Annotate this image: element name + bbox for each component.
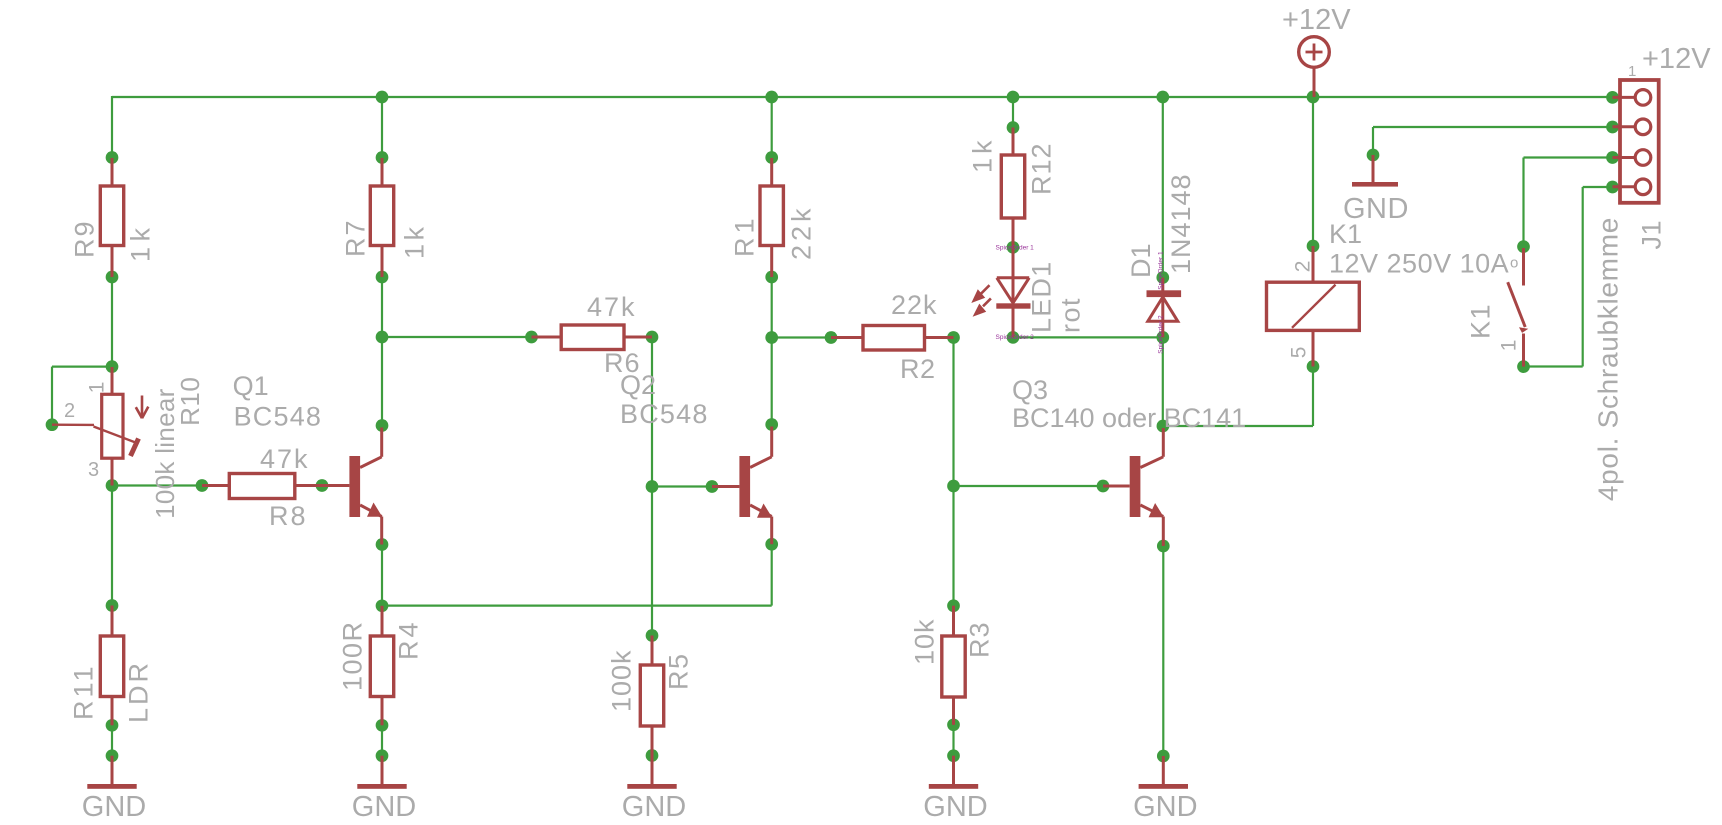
stub R10 pin3 bbox=[111, 458, 114, 486]
wire relay K1 pin5 to Q3 collector node bbox=[1163, 367, 1313, 427]
stub R5 top bbox=[651, 636, 654, 666]
junction rail R1 bbox=[765, 91, 778, 104]
wire D1 top bbox=[1162, 97, 1164, 278]
pin dot R6 left bbox=[525, 331, 538, 344]
stub relay pin2 bbox=[1312, 246, 1315, 282]
stub R2 left bbox=[831, 336, 863, 339]
svg-text:5: 5 bbox=[1287, 347, 1310, 359]
stub +12V supply bbox=[1313, 68, 1316, 98]
pin dot LED1 cathode bbox=[1007, 331, 1020, 344]
stub J1 pin2 bbox=[1613, 125, 1637, 128]
potentiometer R10 wiper bbox=[52, 425, 139, 456]
svg-text:GND: GND bbox=[622, 791, 686, 823]
pin dot switch bottom bbox=[1517, 360, 1530, 373]
stub R6 right bbox=[624, 336, 652, 339]
transistor Q1 bbox=[349, 428, 382, 545]
LED LED1 bbox=[971, 247, 1030, 337]
svg-text:Q1: Q1 bbox=[233, 371, 269, 401]
svg-text:1k: 1k bbox=[968, 136, 998, 173]
wire R1 bottom to Q2 collector bbox=[771, 277, 773, 425]
stub R9 bottom bbox=[111, 246, 114, 278]
pin dot R1 top bbox=[765, 151, 778, 164]
pin dot R9 top bbox=[106, 151, 119, 164]
stub R1 top bbox=[770, 158, 773, 186]
pin dot R9 bottom bbox=[106, 271, 119, 284]
wire R7 bottom to Q1 collector bbox=[381, 277, 383, 426]
stub R11 bottom bbox=[111, 697, 114, 726]
svg-text:R7: R7 bbox=[341, 218, 371, 257]
pin dot Q1 emitter bbox=[376, 538, 389, 551]
resistor R4 body bbox=[370, 636, 393, 697]
pin dot Q3 emitter bbox=[1157, 540, 1170, 553]
wire R7 top bbox=[381, 97, 383, 158]
svg-text:100k: 100k bbox=[607, 649, 637, 712]
svg-text:Q2: Q2 bbox=[620, 370, 656, 400]
wire node R7/R6 branch to R6 bbox=[382, 336, 532, 338]
pin dot R3 bottom bbox=[947, 718, 960, 731]
svg-text:Q3: Q3 bbox=[1012, 375, 1048, 405]
svg-text:R4: R4 bbox=[394, 619, 424, 660]
pin dot R3 top bbox=[947, 599, 960, 612]
wire R6 right down to Q2 base and R5 bbox=[651, 337, 653, 636]
pin dot R1 bottom bbox=[765, 271, 778, 284]
wire +12V top rail bbox=[112, 96, 1613, 98]
pin dot R2 right corner bbox=[947, 331, 960, 344]
stub R10 pin1 bbox=[111, 367, 114, 395]
diode D1 bbox=[1147, 278, 1182, 338]
svg-text:GND: GND bbox=[352, 791, 416, 823]
wire R4 to GND bbox=[381, 725, 383, 755]
stub R12 top bbox=[1012, 128, 1015, 156]
wire R10 pin1 to pin2 bracket bbox=[52, 367, 112, 425]
svg-text:1k: 1k bbox=[126, 222, 156, 262]
wire J1 pin3 to switch K1 top bbox=[1524, 158, 1613, 247]
junction R1 / R2 bbox=[765, 331, 778, 344]
stub GND J1 bbox=[1372, 155, 1375, 182]
pin dot GND1 bbox=[106, 749, 119, 762]
stub Q2 base bbox=[712, 485, 739, 488]
svg-text:2: 2 bbox=[64, 400, 75, 422]
wire R1 top bbox=[771, 97, 773, 158]
pin dot R2 left bbox=[825, 331, 838, 344]
svg-text:R2: R2 bbox=[900, 354, 936, 384]
junction rail D1 bbox=[1156, 91, 1169, 104]
ground symbol GND2 (R4) bbox=[357, 756, 406, 789]
junction Q1 emitter / R4 bbox=[376, 599, 389, 612]
wire base node down to R3 bbox=[952, 486, 954, 606]
svg-text:47k: 47k bbox=[587, 292, 637, 322]
wire R1 node to R2 bbox=[772, 336, 831, 338]
wire R3 to GND bbox=[952, 725, 954, 756]
pin dot R7 bottom bbox=[376, 271, 389, 284]
svg-text:GND: GND bbox=[82, 791, 146, 823]
pin dot R6 right corner bbox=[646, 331, 659, 344]
resistor R11 body (LDR) bbox=[100, 636, 123, 697]
resistor R2 body bbox=[863, 326, 925, 351]
resistor R8 body bbox=[229, 474, 294, 499]
resistor R9 body bbox=[100, 186, 123, 246]
svg-text:J1: J1 bbox=[1637, 220, 1667, 250]
stub R3 bottom bbox=[952, 697, 955, 725]
svg-text:LDR: LDR bbox=[124, 660, 154, 723]
pin dot GND2 bbox=[376, 749, 389, 762]
resistor R12 body bbox=[1001, 155, 1024, 218]
pin dot Q1 collector bbox=[376, 419, 389, 432]
stub R8 left bbox=[202, 484, 229, 487]
svg-text:R8: R8 bbox=[269, 501, 308, 531]
junction rail R7 bbox=[376, 91, 389, 104]
ground symbol GND near J1 bbox=[1352, 155, 1398, 187]
resistor R1 body bbox=[760, 186, 783, 246]
pin dot J1 pin4 bbox=[1606, 181, 1619, 194]
resistor R3 body bbox=[942, 636, 965, 697]
stub relay pin5 bbox=[1312, 330, 1315, 366]
resistor R6 body bbox=[561, 325, 624, 350]
junction Q3 collector / relay bbox=[1157, 420, 1170, 433]
potentiometer R10 adjust arrow bbox=[136, 396, 149, 419]
svg-text:100R: 100R bbox=[338, 620, 368, 691]
pin dot R12 bottom / LED1 anode bbox=[1007, 241, 1020, 254]
svg-text:R12: R12 bbox=[1027, 142, 1057, 195]
svg-text:R3: R3 bbox=[965, 621, 995, 658]
junction rail R12 bbox=[1007, 91, 1020, 104]
pin dot GND near J1 bbox=[1367, 149, 1380, 162]
stub R7 bottom bbox=[381, 246, 384, 278]
wire R9 top bbox=[111, 96, 113, 158]
wire R12 top bbox=[1012, 97, 1014, 128]
svg-text:22k: 22k bbox=[787, 204, 817, 260]
wire Q3 base bbox=[954, 485, 1104, 487]
wire R9 bottom to R10 pin1 node bbox=[111, 277, 113, 367]
pin dot R4 bottom bbox=[376, 719, 389, 732]
svg-text:SpiceOrder 1: SpiceOrder 1 bbox=[996, 245, 1035, 252]
svg-text:R5: R5 bbox=[664, 652, 694, 690]
wire Q3 emitter to GND bbox=[1162, 546, 1164, 756]
junction Q3 base node bbox=[947, 480, 960, 493]
svg-text:1N4148: 1N4148 bbox=[1166, 173, 1196, 274]
+12V supply symbol bbox=[1299, 37, 1330, 68]
stub R7 top bbox=[381, 158, 384, 186]
svg-text:D1: D1 bbox=[1126, 243, 1156, 278]
junction rail relay bbox=[1307, 91, 1320, 104]
stub R6 left bbox=[532, 336, 562, 339]
pin dot Q2 base bbox=[706, 480, 719, 493]
svg-text:4pol. Schraubklemme: 4pol. Schraubklemme bbox=[1592, 217, 1623, 501]
wire switch K1 bottom to J1 pin4 bbox=[1524, 187, 1613, 367]
stub J1 pin1 bbox=[1613, 96, 1637, 99]
svg-text:R1: R1 bbox=[730, 214, 760, 257]
stub R9 top bbox=[111, 158, 114, 186]
stub R1 bottom bbox=[770, 246, 773, 278]
resistor R5 body bbox=[640, 665, 663, 726]
pin dot GND5 bbox=[1157, 750, 1170, 763]
svg-text:SpiceOrder 1: SpiceOrder 1 bbox=[1158, 251, 1165, 290]
pin dot Q3 base bbox=[1097, 480, 1110, 493]
svg-text:GND: GND bbox=[1133, 791, 1197, 823]
svg-text:rot: rot bbox=[1056, 297, 1086, 333]
pin dot Q2 emitter bbox=[765, 538, 778, 551]
pin dot D1 anode bbox=[1156, 331, 1169, 344]
transistor Q2 bbox=[739, 427, 772, 545]
transistor Q3 bbox=[1130, 428, 1164, 546]
pin dot J1 pin2 bbox=[1606, 121, 1619, 134]
wire +12V rail down to relay K1 bbox=[1312, 97, 1314, 246]
svg-text:12V 250V 10A: 12V 250V 10A bbox=[1329, 249, 1509, 279]
svg-text:BC548: BC548 bbox=[234, 402, 323, 432]
connector J1 (4pol. Schraubklemme) bbox=[1620, 80, 1659, 203]
wire R2 right down to Q3 base node bbox=[952, 338, 954, 487]
resistor R7 body bbox=[370, 186, 393, 246]
pin dot J1 pin3 bbox=[1606, 151, 1619, 164]
svg-text:3: 3 bbox=[88, 459, 99, 481]
svg-text:+12V: +12V bbox=[1282, 4, 1351, 36]
ground symbol GND5 (Q3) bbox=[1139, 756, 1188, 789]
potentiometer R10 body bbox=[102, 394, 123, 458]
wire R10 pin3 down to R11 bbox=[111, 486, 113, 606]
svg-text:BC548: BC548 bbox=[620, 399, 709, 429]
pin dot D1 cathode bbox=[1156, 271, 1169, 284]
pin dot R12 top bbox=[1007, 121, 1020, 134]
ground symbol GND3 (R5) bbox=[627, 756, 676, 789]
pin dot R10 pin2 bbox=[46, 418, 59, 431]
wire Q1 emitter down bbox=[381, 545, 383, 606]
svg-text:BC140 oder BC141: BC140 oder BC141 bbox=[1012, 403, 1246, 433]
pin dot R8 left bbox=[196, 479, 209, 492]
svg-text:GND: GND bbox=[1343, 193, 1409, 225]
pin dot relay pin5 bbox=[1307, 360, 1320, 373]
stub J1 pin3 bbox=[1613, 156, 1637, 159]
stub R4 top bbox=[381, 606, 384, 636]
svg-text:1: 1 bbox=[1497, 340, 1520, 352]
junction Q2 base node bbox=[646, 480, 659, 493]
stub R11 top bbox=[111, 606, 114, 637]
svg-text:R9: R9 bbox=[70, 219, 100, 258]
svg-text:SpiceOrder 2: SpiceOrder 2 bbox=[996, 334, 1035, 341]
svg-text:K1: K1 bbox=[1466, 303, 1496, 339]
junction R7/R6 bbox=[376, 331, 389, 344]
pin dot R11 bottom bbox=[106, 719, 119, 732]
wire GND to J1 pin2 bbox=[1373, 127, 1613, 155]
stub J1 pin4 bbox=[1613, 185, 1637, 188]
wire LED1 cathode to D1 anode bbox=[1013, 336, 1163, 338]
svg-text:LED1: LED1 bbox=[1027, 261, 1057, 333]
svg-text:47k: 47k bbox=[260, 444, 310, 474]
svg-text:22k: 22k bbox=[891, 290, 938, 320]
ground symbol GND1 (R11) bbox=[87, 756, 136, 789]
pin dot R5 bottom / GND3 bbox=[646, 749, 659, 762]
junction R10 pin3 / R8 bbox=[106, 479, 119, 492]
junction R10 pin1 bbox=[106, 360, 119, 373]
svg-text:10k: 10k bbox=[910, 618, 940, 665]
stub R4 bottom bbox=[381, 697, 384, 726]
stub R2 right bbox=[925, 336, 954, 339]
svg-text:GND: GND bbox=[923, 791, 987, 823]
switch contact K1 bbox=[1508, 248, 1529, 367]
junction rail J1 pin1 bbox=[1606, 91, 1619, 104]
pin dot R8 right / Q1 base bbox=[316, 479, 329, 492]
pin dot switch top bbox=[1517, 240, 1530, 253]
stub Q1 base bbox=[322, 484, 349, 487]
stub Q3 base bbox=[1103, 485, 1130, 488]
wire Q2 base bbox=[652, 485, 712, 487]
svg-text:1k: 1k bbox=[400, 223, 430, 259]
svg-text:2: 2 bbox=[1291, 261, 1314, 273]
wire D1 anode down to Q3 collector bbox=[1162, 337, 1164, 426]
wire R10 pin3 to R8 bbox=[112, 484, 202, 486]
relay coil K1 bbox=[1267, 282, 1360, 330]
svg-text:o: o bbox=[1510, 255, 1518, 272]
svg-text:R10: R10 bbox=[175, 377, 205, 426]
pin dot R7 top bbox=[376, 151, 389, 164]
svg-text:1: 1 bbox=[1628, 63, 1636, 80]
stub R5 bottom bbox=[651, 726, 654, 756]
pin dot Q2 collector bbox=[765, 418, 778, 431]
stub R3 top bbox=[952, 606, 955, 636]
wire emitter coupling line bbox=[382, 544, 772, 605]
svg-text:+12V: +12V bbox=[1642, 43, 1711, 75]
svg-text:1: 1 bbox=[85, 382, 108, 394]
svg-text:R11: R11 bbox=[69, 663, 99, 720]
pin dot R5 top bbox=[646, 629, 659, 642]
pin dot R11 top bbox=[106, 599, 119, 612]
pin dot relay pin2 bbox=[1307, 240, 1320, 253]
wire R11 to GND bbox=[111, 725, 113, 755]
stub R12 bottom bbox=[1012, 218, 1015, 247]
pin dot GND4 bbox=[947, 749, 960, 762]
stub R8 right bbox=[295, 484, 322, 487]
svg-text:SpiceOrder 2: SpiceOrder 2 bbox=[1158, 315, 1165, 354]
ground symbol GND4 (R3) bbox=[929, 756, 978, 789]
